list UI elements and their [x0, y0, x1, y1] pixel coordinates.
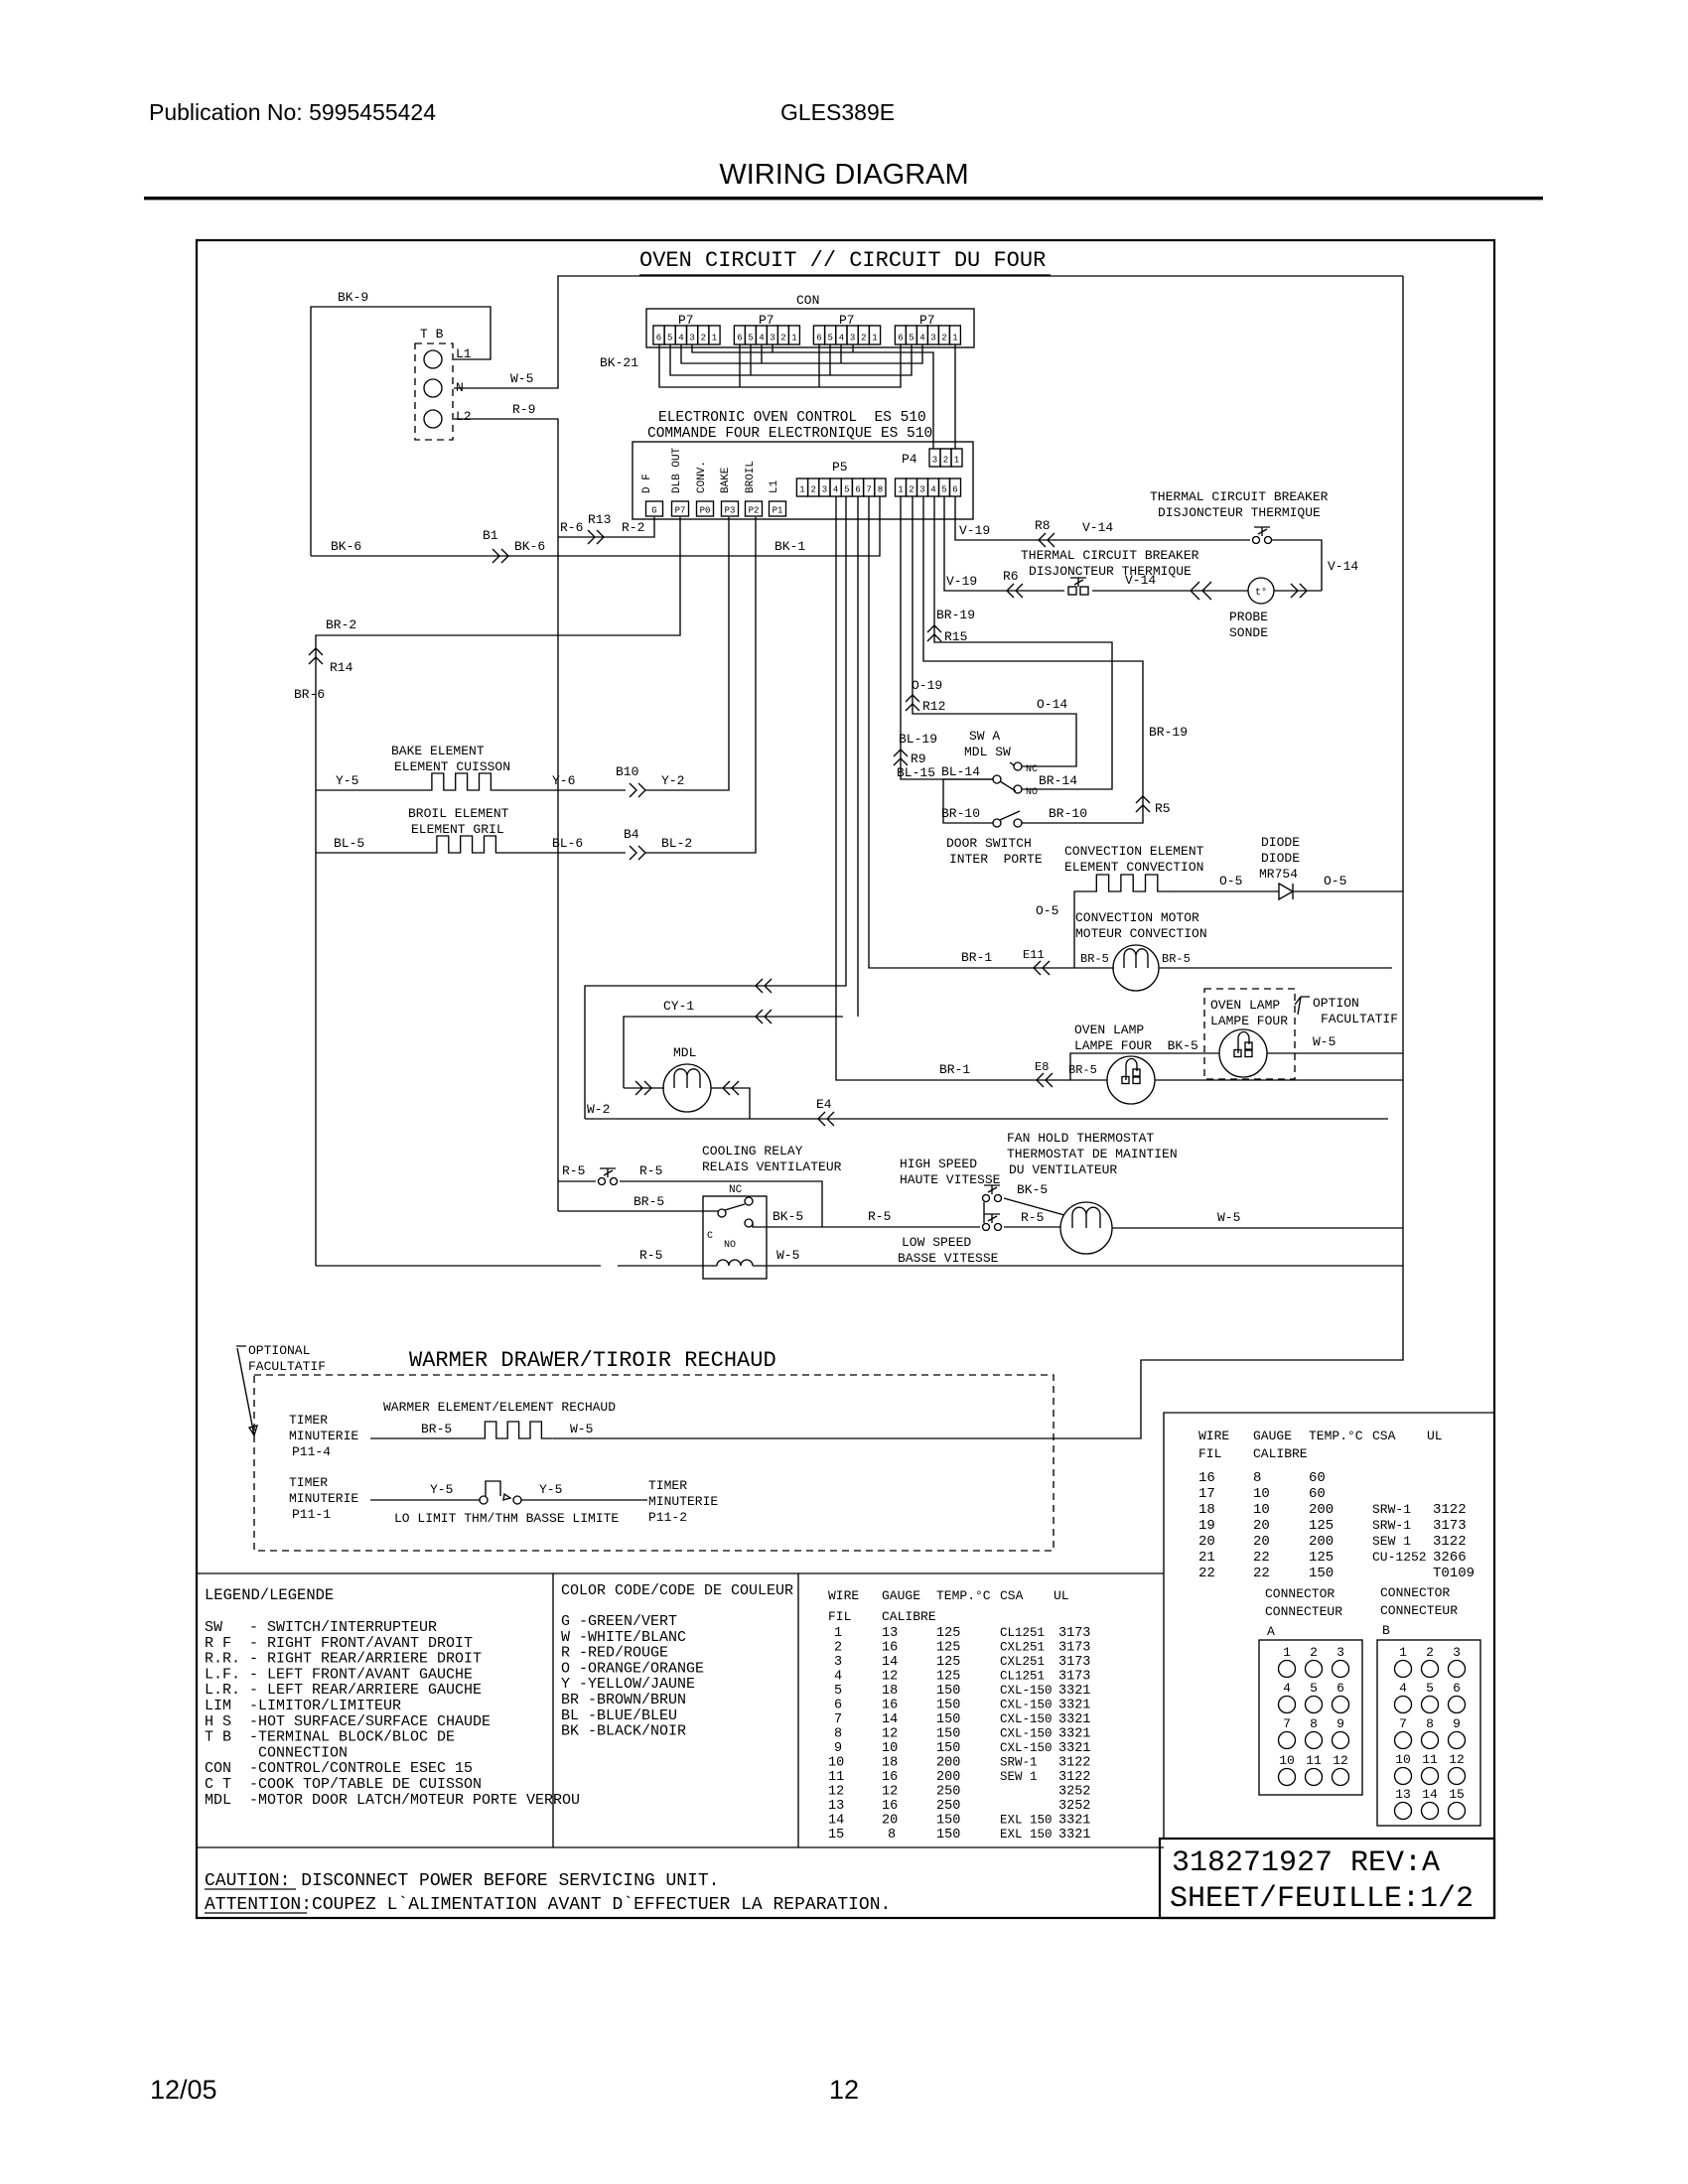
terminal L2 circle — [424, 410, 442, 428]
svg-text:P0: P0 — [700, 506, 711, 516]
warmer drawer dashed box — [254, 1375, 1054, 1551]
svg-text:W-2: W-2 — [587, 1102, 610, 1117]
svg-text:TEMP.°C: TEMP.°C — [1309, 1429, 1363, 1443]
legend row 11 — [205, 1776, 482, 1793]
label NO — [1026, 787, 1038, 798]
svg-text:INTER PORTE: INTER PORTE — [949, 852, 1043, 867]
label R-9 — [512, 402, 535, 417]
svg-text:15: 15 — [828, 1828, 844, 1843]
label V-14 vertical — [1328, 559, 1358, 574]
svg-text:125: 125 — [936, 1670, 960, 1685]
svg-text:R-6: R-6 — [560, 520, 583, 535]
svg-text:R F - RIGHT FRONT/AVANT DROIT: R F - RIGHT FRONT/AVANT DROIT — [205, 1635, 473, 1652]
svg-text:5: 5 — [748, 334, 753, 343]
fan motor — [1060, 1202, 1112, 1254]
svg-text:11: 11 — [1422, 1752, 1438, 1767]
label DIODE 1 — [1261, 835, 1300, 850]
svg-text:R5: R5 — [1155, 801, 1171, 816]
wire MDL left — [624, 1087, 664, 1089]
label P4 — [902, 452, 917, 467]
svg-text:14: 14 — [882, 1655, 898, 1670]
svg-text:1: 1 — [712, 334, 717, 343]
right wire table box — [1164, 1413, 1494, 1839]
footer date 12/05 — [150, 2075, 217, 2105]
svg-text:3252: 3252 — [1058, 1799, 1090, 1814]
svg-text:CXL-150: CXL-150 — [1000, 1712, 1053, 1726]
svg-text:12: 12 — [828, 1785, 844, 1800]
svg-text:8: 8 — [878, 485, 883, 495]
label E4 — [816, 1097, 832, 1112]
color code row 1 — [561, 1613, 677, 1630]
legend divider 1 — [552, 1573, 554, 1847]
svg-text:12: 12 — [882, 1727, 898, 1742]
connector P7 group 1 pins 6-1 — [653, 326, 720, 344]
svg-text:CL1251: CL1251 — [1000, 1670, 1045, 1684]
svg-text:CONNECTOR: CONNECTOR — [1265, 1586, 1335, 1601]
label Y-2 — [661, 773, 684, 788]
label FAN HOLD THERMOSTAT — [1007, 1131, 1154, 1146]
svg-text:R-5: R-5 — [1021, 1210, 1044, 1225]
svg-text:ELEMENT GRIL: ELEMENT GRIL — [411, 822, 504, 837]
svg-text:3122: 3122 — [1058, 1756, 1090, 1771]
label CONVECTION MOTOR — [1075, 910, 1199, 925]
svg-text:BAKE ELEMENT: BAKE ELEMENT — [391, 744, 485, 758]
svg-text:BROIL: BROIL — [745, 461, 757, 493]
svg-text:17: 17 — [1198, 1486, 1215, 1502]
svg-text:NC: NC — [1026, 764, 1038, 775]
svg-text:MDL SW: MDL SW — [964, 745, 1011, 759]
svg-text:7: 7 — [1399, 1716, 1407, 1731]
svg-text:E8: E8 — [1035, 1060, 1049, 1074]
center table header CSA — [1000, 1588, 1024, 1603]
wire probe to corner — [1274, 590, 1322, 592]
svg-text:OVEN CIRCUIT // CIRCUIT DU FOU: OVEN CIRCUIT // CIRCUIT DU FOUR — [639, 248, 1046, 273]
svg-text:T0109: T0109 — [1433, 1566, 1475, 1581]
label O-5 mid — [1219, 874, 1242, 888]
connector P7 group 4 pins 6-1 — [895, 326, 960, 344]
broil element wire right — [507, 852, 626, 854]
legend row 9 — [205, 1744, 348, 1761]
door switch left contact — [993, 819, 1001, 827]
svg-text:6: 6 — [737, 334, 742, 343]
svg-text:BK-1: BK-1 — [774, 539, 805, 554]
color code row 8 — [561, 1723, 686, 1740]
wire O-19 (P5-2 to SW A NC) — [913, 496, 1076, 766]
svg-text:L2: L2 — [456, 409, 472, 424]
connector R6 chevrons — [1007, 584, 1023, 598]
right table header CSA — [1372, 1429, 1396, 1443]
svg-text:BR -BROWN/BRUN: BR -BROWN/BRUN — [561, 1692, 686, 1708]
wire convection motor out — [1159, 967, 1392, 969]
connector R9 chevrons — [894, 750, 908, 765]
label CONNECTEUR A 2 — [1265, 1604, 1342, 1619]
wire BR-19 lower (P5-3 to door switch) — [923, 496, 1143, 823]
connector MDL right chevrons — [723, 1081, 739, 1095]
svg-text:DOOR SWITCH: DOOR SWITCH — [946, 836, 1032, 851]
svg-text:250: 250 — [936, 1785, 960, 1800]
center table header TEMP — [936, 1588, 991, 1603]
svg-text:LEGEND/LEGENDE: LEGEND/LEGENDE — [205, 1586, 334, 1604]
svg-text:3: 3 — [770, 334, 774, 343]
svg-text:BASSE VITESSE: BASSE VITESSE — [898, 1251, 999, 1266]
svg-text:CXL-150: CXL-150 — [1000, 1727, 1053, 1741]
label Y-6 — [552, 773, 575, 788]
svg-text:8: 8 — [834, 1727, 842, 1742]
label T B — [420, 327, 444, 341]
label BR-6 — [294, 687, 325, 702]
svg-text:O-5: O-5 — [1036, 903, 1058, 918]
label BL-19 — [899, 732, 937, 747]
right table header UL — [1427, 1429, 1443, 1443]
svg-text:D F: D F — [641, 474, 653, 493]
svg-text:4: 4 — [930, 485, 935, 495]
svg-text:W-5: W-5 — [1217, 1210, 1240, 1225]
legend row 7 — [205, 1713, 491, 1730]
svg-text:150: 150 — [936, 1741, 960, 1756]
svg-text:GAUGE: GAUGE — [1253, 1429, 1292, 1443]
svg-text:18: 18 — [1198, 1502, 1215, 1518]
color code row 7 — [561, 1707, 677, 1724]
legend bottom divider — [197, 1846, 1164, 1848]
convection motor — [1113, 945, 1159, 991]
revision box — [1160, 1839, 1494, 1918]
svg-text:R-5: R-5 — [868, 1209, 891, 1224]
label MOTEUR CONVECTION — [1075, 926, 1207, 941]
svg-text:3252: 3252 — [1058, 1785, 1090, 1800]
svg-text:20: 20 — [882, 1814, 898, 1829]
svg-text:H S -HOT SURFACE/SURFACE CHAU: H S -HOT SURFACE/SURFACE CHAUDE — [205, 1713, 491, 1730]
connector R12 chevrons — [906, 695, 919, 711]
svg-text:LO LIMIT THM/THM BASSE LIMITE: LO LIMIT THM/THM BASSE LIMITE — [394, 1511, 619, 1526]
wire stub g3 pin5 — [829, 344, 831, 375]
label BR-5 conv left — [1080, 952, 1109, 966]
page title WIRING DIAGRAM — [719, 159, 968, 191]
label CY-1 — [663, 999, 694, 1014]
svg-text:200: 200 — [936, 1770, 960, 1785]
label P5 — [832, 460, 848, 475]
svg-text:12: 12 — [1449, 1752, 1465, 1767]
EOC relay terminal G — [646, 501, 663, 516]
svg-text:Y-2: Y-2 — [661, 773, 684, 788]
svg-text:6: 6 — [855, 485, 860, 495]
svg-text:FIL: FIL — [1198, 1446, 1221, 1461]
probe — [1248, 578, 1274, 604]
optional pointer arrow — [236, 1346, 257, 1435]
svg-text:BL-14: BL-14 — [941, 764, 980, 779]
label MR754 — [1259, 867, 1298, 882]
svg-text:13: 13 — [828, 1799, 844, 1814]
svg-text:L1: L1 — [456, 346, 472, 361]
svg-text:BK-6: BK-6 — [514, 539, 545, 554]
svg-text:V-19: V-19 — [946, 574, 977, 589]
svg-text:BK-6: BK-6 — [331, 539, 361, 554]
label ELEMENT CONVECTION — [1064, 860, 1203, 875]
svg-text:1: 1 — [952, 334, 957, 343]
right table header TEMP — [1309, 1429, 1363, 1443]
svg-text:150: 150 — [936, 1684, 960, 1699]
svg-text:LIM -LIMITOR/LIMITEUR: LIM -LIMITOR/LIMITEUR — [205, 1698, 401, 1714]
label R-5 mid — [868, 1209, 891, 1224]
label CONNECTOR B 1 — [1380, 1585, 1450, 1600]
svg-text:CALIBRE: CALIBRE — [1253, 1446, 1308, 1461]
svg-text:L.R. - LEFT REAR/ARRIERE GAUCH: L.R. - LEFT REAR/ARRIERE GAUCHE — [205, 1682, 482, 1699]
center table row wire 2 — [834, 1641, 1090, 1656]
svg-text:BR-14: BR-14 — [1039, 773, 1077, 788]
svg-text:3321: 3321 — [1058, 1741, 1090, 1756]
wire CON g4 pin1 to P4 pin 1 — [954, 344, 956, 449]
svg-text:W-5: W-5 — [570, 1422, 593, 1436]
label NC relay — [729, 1184, 743, 1196]
right table row wire 20 — [1198, 1534, 1467, 1550]
svg-text:6: 6 — [656, 334, 661, 343]
svg-text:150: 150 — [936, 1727, 960, 1742]
svg-text:P5: P5 — [832, 460, 848, 475]
center table row wire 7 — [834, 1712, 1090, 1727]
label BR-5 lamp — [1068, 1063, 1097, 1077]
footer page 12 — [829, 2075, 859, 2105]
label HAUTE VITESSE — [900, 1172, 1001, 1187]
svg-text:3122: 3122 — [1433, 1502, 1467, 1518]
svg-text:P4: P4 — [902, 452, 917, 467]
svg-text:2: 2 — [941, 334, 946, 343]
label COMMANDE FOUR ELECTRONIQUE ES 510 — [647, 426, 932, 442]
switch SW A NC contact — [1010, 762, 1022, 770]
label MINUTERIE 2 — [289, 1491, 358, 1506]
label R-5 b — [639, 1163, 662, 1178]
svg-text:22: 22 — [1198, 1566, 1215, 1581]
svg-text:NC: NC — [729, 1184, 743, 1196]
wire W-5 optional lamp to rail — [1267, 1052, 1403, 1054]
svg-text:R8: R8 — [1035, 518, 1051, 533]
svg-text:2: 2 — [780, 334, 785, 343]
svg-text:R14: R14 — [330, 660, 353, 675]
svg-text:8: 8 — [1310, 1716, 1318, 1731]
label BASSE VITESSE — [898, 1251, 999, 1266]
cooling switch R-5 — [599, 1168, 618, 1185]
svg-text:3173: 3173 — [1058, 1655, 1090, 1670]
svg-text:T B -TERMINAL BLOCK/BLOC DE: T B -TERMINAL BLOCK/BLOC DE — [205, 1729, 455, 1746]
svg-text:3321: 3321 — [1058, 1814, 1090, 1829]
wire stub g2 pin4 — [761, 344, 763, 363]
label FACULTATIF — [248, 1359, 326, 1374]
wire CON bus pin6s — [659, 344, 901, 387]
svg-text:P1: P1 — [773, 506, 783, 516]
svg-text:C: C — [707, 1231, 713, 1242]
wire V-19 lower (P5-5 to breaker) — [944, 496, 1064, 591]
svg-text:3: 3 — [1453, 1645, 1461, 1660]
wire V-14 lower (breaker to probe) — [1092, 590, 1248, 592]
EOC relay terminal P3 — [722, 501, 739, 516]
svg-text:2: 2 — [1426, 1645, 1434, 1660]
svg-text:BR-1: BR-1 — [961, 950, 992, 965]
EOC rotated label CONV. — [696, 461, 708, 493]
svg-text:OPTION: OPTION — [1313, 996, 1359, 1011]
label LAMPE FOUR optional — [1210, 1014, 1288, 1028]
EOC rotated label BROIL — [745, 461, 757, 493]
svg-text:CSA: CSA — [1372, 1429, 1396, 1443]
svg-text:R13: R13 — [588, 512, 611, 527]
door switch right contact — [1014, 819, 1022, 827]
svg-text:3: 3 — [919, 485, 924, 495]
label COOLING RELAY — [702, 1144, 803, 1159]
label LOW SPEED — [902, 1235, 971, 1250]
svg-text:3173: 3173 — [1058, 1626, 1090, 1641]
label BK-6 right — [514, 539, 545, 554]
label SHEET/FEUILLE:1/2 — [1170, 1882, 1474, 1916]
connector B pins 1-15 — [1395, 1645, 1466, 1820]
high speed switch — [983, 1185, 1002, 1202]
svg-text:14: 14 — [1422, 1787, 1438, 1802]
svg-text:14: 14 — [882, 1712, 898, 1727]
relay common contact — [718, 1209, 726, 1217]
svg-text:V-14: V-14 — [1125, 573, 1156, 588]
svg-text:SONDE: SONDE — [1229, 625, 1268, 640]
svg-text:13: 13 — [1395, 1787, 1411, 1802]
svg-text:8: 8 — [1253, 1470, 1261, 1486]
color code row 3 — [561, 1645, 668, 1662]
svg-text:Y-5: Y-5 — [336, 773, 358, 788]
legend row 1 — [205, 1619, 437, 1636]
label BL-2 — [661, 836, 692, 851]
label P7 group 3 — [839, 313, 855, 328]
svg-text:20: 20 — [1253, 1518, 1270, 1534]
svg-text:R-5: R-5 — [562, 1163, 585, 1178]
connector chevrons before probe — [1191, 582, 1211, 600]
svg-text:CON: CON — [796, 293, 819, 308]
svg-text:P3: P3 — [725, 506, 736, 516]
relay NC contact — [745, 1197, 753, 1205]
svg-text:4: 4 — [1283, 1681, 1291, 1696]
label DISJONCTEUR THERMIQUE (lower) — [1029, 564, 1192, 579]
thermal circuit breaker lower — [1068, 578, 1088, 595]
svg-text:20: 20 — [1198, 1534, 1215, 1550]
svg-text:GAUGE: GAUGE — [882, 1588, 920, 1603]
EOC relay terminal P7 — [672, 501, 689, 516]
svg-text:21: 21 — [1198, 1550, 1215, 1566]
label LO LIMIT THM/THM BASSE LIMITE — [394, 1511, 619, 1526]
svg-text:R-5: R-5 — [639, 1248, 662, 1263]
svg-text:SRW-1: SRW-1 — [1000, 1756, 1038, 1770]
svg-text:3173: 3173 — [1433, 1518, 1467, 1534]
svg-text:4: 4 — [833, 485, 838, 495]
svg-text:BR-10: BR-10 — [941, 806, 980, 821]
optional oven lamp — [1219, 1029, 1267, 1077]
connector R8 chevrons — [1039, 533, 1055, 547]
EOC rotated label L1 — [769, 479, 780, 493]
svg-text:2: 2 — [1310, 1645, 1318, 1660]
label R5 — [1155, 801, 1171, 816]
svg-text:4: 4 — [1399, 1681, 1407, 1696]
wire BR-19 upper (P5-4 to SW A NO) — [934, 496, 1112, 789]
svg-text:MR754: MR754 — [1259, 867, 1298, 882]
svg-text:P2: P2 — [749, 506, 760, 516]
title WARMER DRAWER/TIROIR RECHAUD — [409, 1348, 776, 1373]
svg-text:E4: E4 — [816, 1097, 832, 1112]
EOC rotated label BAKE — [720, 467, 732, 493]
label N — [456, 380, 464, 395]
connector E4 chevrons — [818, 1112, 834, 1126]
label R-5 coil — [639, 1248, 662, 1263]
wire P5-5L hook (to W-2 run) — [585, 496, 846, 1119]
svg-text:BR-10: BR-10 — [1049, 806, 1087, 821]
svg-text:125: 125 — [936, 1655, 960, 1670]
switch SW A common contact — [993, 775, 1001, 783]
svg-text:318271927 REV:A: 318271927 REV:A — [1172, 1846, 1440, 1880]
svg-text:CXL251: CXL251 — [1000, 1641, 1045, 1655]
connector P5 left group pins 1-8 — [796, 478, 886, 496]
connector B box — [1377, 1640, 1480, 1826]
svg-text:PROBE: PROBE — [1229, 610, 1268, 624]
svg-text:3: 3 — [689, 334, 694, 343]
svg-text:THERMAL CIRCUIT BREAKER: THERMAL CIRCUIT BREAKER — [1150, 489, 1329, 504]
wire W-5 (N to right rail) — [454, 276, 1403, 388]
svg-text:125: 125 — [1309, 1550, 1334, 1566]
svg-text:4: 4 — [839, 334, 844, 343]
label SW A — [969, 729, 1000, 744]
svg-text:BK-5: BK-5 — [773, 1209, 803, 1224]
terminal block TB dashed box — [415, 343, 453, 440]
svg-text:W-5: W-5 — [1313, 1034, 1336, 1049]
svg-text:COMMANDE FOUR ELECTRONIQUE ES: COMMANDE FOUR ELECTRONIQUE ES 510 — [647, 426, 932, 442]
wire W-2 / E4 run — [585, 1118, 1388, 1120]
svg-text:2: 2 — [810, 485, 815, 495]
svg-text:125: 125 — [1309, 1518, 1334, 1534]
svg-text:P7: P7 — [675, 506, 686, 516]
svg-text:DLB OUT: DLB OUT — [671, 447, 683, 493]
svg-text:13: 13 — [882, 1626, 898, 1641]
label BK-21 — [600, 355, 638, 370]
svg-text:R9: R9 — [911, 751, 926, 766]
svg-text:5: 5 — [834, 1684, 842, 1699]
label DU VENTILATEUR — [1009, 1162, 1117, 1177]
svg-text:TEMP.°C: TEMP.°C — [936, 1588, 991, 1603]
svg-text:3321: 3321 — [1058, 1699, 1090, 1713]
svg-text:8: 8 — [1426, 1716, 1434, 1731]
svg-text:P11-2: P11-2 — [648, 1510, 687, 1525]
label MINUTERIE 1 — [289, 1429, 358, 1443]
center table row wire 15 — [828, 1828, 1090, 1843]
svg-text:BR-6: BR-6 — [294, 687, 325, 702]
svg-text:BL-19: BL-19 — [899, 732, 937, 747]
EOC rotated label DLB OUT — [671, 447, 683, 493]
svg-text:CONNECTEUR: CONNECTEUR — [1380, 1603, 1458, 1618]
svg-text:CXL-150: CXL-150 — [1000, 1699, 1053, 1712]
svg-text:OPTIONAL: OPTIONAL — [248, 1343, 310, 1358]
center table row wire 12 — [828, 1785, 1090, 1800]
svg-text:9: 9 — [834, 1741, 842, 1756]
wire stub g3 pin6 — [818, 344, 820, 387]
label MDL SW — [964, 745, 1011, 759]
svg-text:7: 7 — [866, 485, 871, 495]
svg-text:BR-19: BR-19 — [936, 608, 975, 622]
right table row wire 21 — [1198, 1550, 1467, 1566]
svg-text:CXL-150: CXL-150 — [1000, 1741, 1053, 1755]
label E11 — [1023, 948, 1045, 962]
color code row 5 — [561, 1676, 695, 1693]
svg-text:3: 3 — [932, 456, 937, 466]
svg-text:THERMOSTAT DE MAINTIEN: THERMOSTAT DE MAINTIEN — [1007, 1147, 1178, 1161]
connector chevrons after probe — [1291, 584, 1307, 598]
svg-text:MINUTERIE: MINUTERIE — [289, 1429, 358, 1443]
terminal N circle — [424, 379, 442, 397]
relay blade — [725, 1204, 745, 1210]
svg-text:MDL -MOTOR DOOR LATCH/MOTEUR: MDL -MOTOR DOOR LATCH/MOTEUR PORTE VERRO… — [205, 1792, 580, 1809]
svg-text:ATTENTION:COUPEZ L`ALIMENTATIO: ATTENTION:COUPEZ L`ALIMENTATION AVANT D`… — [205, 1895, 891, 1915]
label BK-9 — [338, 290, 368, 305]
door switch blade — [1000, 811, 1020, 820]
svg-text:10: 10 — [1253, 1502, 1270, 1518]
connector B4 chevrons — [630, 846, 645, 860]
